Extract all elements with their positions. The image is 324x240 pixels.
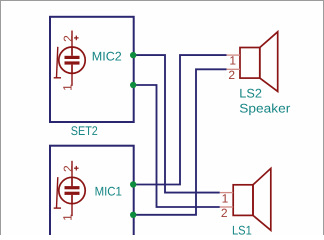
- pin 1 stub: [227, 54, 241, 56]
- membrane foot: [54, 207, 61, 209]
- sheet SET2: [50, 17, 134, 122]
- membrane line: [57, 177, 58, 208]
- svg-text:Speaker: Speaker: [239, 101, 290, 115]
- pin 2 stub: [227, 68, 241, 70]
- junction SET2 pin b: [130, 82, 136, 88]
- bottom plate: [65, 192, 80, 195]
- wires: [133, 55, 227, 215]
- top plate: [65, 56, 80, 59]
- wire SET2.jct2 to LS1 pin2: [133, 85, 220, 207]
- svg-text:MIC2: MIC2: [92, 49, 122, 63]
- svg-text:SET2: SET2: [71, 124, 98, 138]
- body circle: [59, 177, 85, 203]
- svg-text:2: 2: [61, 35, 75, 42]
- pin 1 stub: [220, 192, 234, 194]
- junction SET1 pin b: [130, 212, 136, 218]
- plus mark: [74, 37, 79, 39]
- speaker LS2: [227, 32, 278, 92]
- microphone MIC1: [54, 161, 85, 216]
- plus mark: [74, 167, 79, 169]
- pin 2 line: [71, 161, 73, 178]
- speaker LS1: [220, 168, 271, 230]
- bottom plate: [65, 61, 80, 64]
- top plate: [65, 186, 80, 189]
- svg-text:1: 1: [229, 54, 236, 68]
- wire LS2 pin1 to MIC1.jct1: [133, 55, 227, 184]
- svg-text:MIC1: MIC1: [95, 185, 122, 199]
- plate stubs: [71, 47, 73, 56]
- membrane line: [57, 47, 58, 78]
- svg-text:LS2: LS2: [239, 86, 262, 100]
- wire SET2.jct1 to corner: [133, 55, 220, 193]
- cone: [260, 32, 278, 92]
- pin 2 line: [71, 31, 73, 48]
- cone: [253, 168, 271, 230]
- svg-text:LS1: LS1: [232, 223, 252, 235]
- pin 2 stub: [220, 206, 234, 208]
- junction SET2 pin a: [130, 52, 136, 58]
- pin 1 line: [71, 204, 73, 217]
- wire LS2 pin2 to MIC1.jct2: [133, 69, 227, 215]
- svg-text:2: 2: [228, 68, 235, 82]
- svg-text:2: 2: [61, 165, 75, 172]
- body rect: [240, 48, 260, 79]
- body rect: [233, 185, 253, 216]
- svg-text:1: 1: [61, 214, 75, 221]
- sheet SET1 (box around MIC1, extends past bottom): [50, 146, 134, 240]
- svg-text:1: 1: [61, 84, 75, 91]
- microphone MIC2: [54, 31, 85, 86]
- junction SET1 pin a: [130, 181, 136, 187]
- svg-text:2: 2: [221, 206, 228, 220]
- svg-text:1: 1: [222, 192, 229, 206]
- pin 1 line: [71, 73, 73, 86]
- body circle: [59, 47, 85, 73]
- plate stubs: [71, 178, 73, 187]
- membrane foot: [54, 77, 61, 79]
